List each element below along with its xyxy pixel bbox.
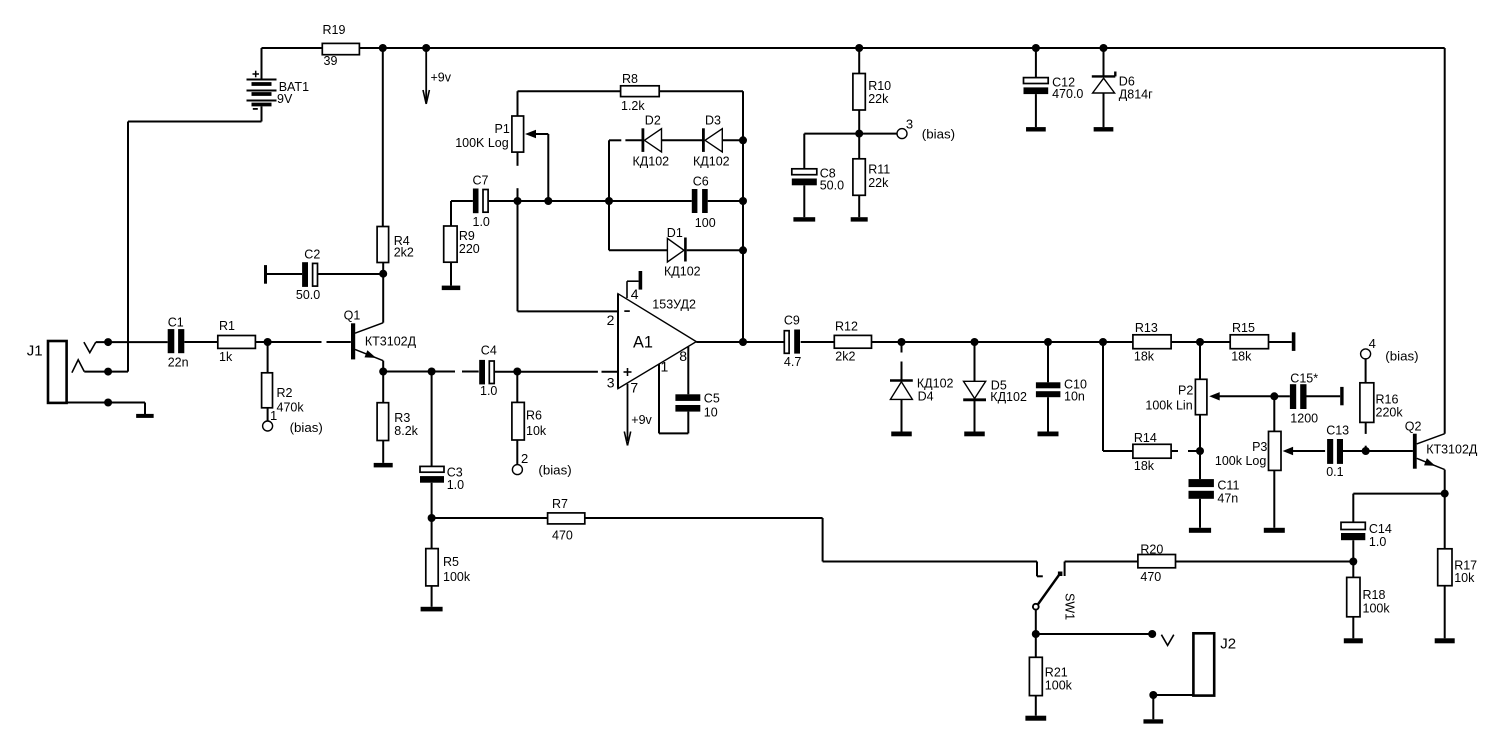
svg-text:D6: D6 (1119, 75, 1135, 89)
svg-text:R18: R18 (1363, 588, 1386, 602)
svg-text:(bias): (bias) (922, 127, 955, 142)
svg-text:10k: 10k (1454, 571, 1475, 585)
svg-text:22k: 22k (868, 176, 889, 190)
svg-text:153УД2: 153УД2 (652, 297, 696, 311)
svg-text:КД102: КД102 (917, 377, 954, 391)
svg-text:+9v: +9v (431, 71, 452, 85)
svg-text:R19: R19 (323, 23, 346, 37)
svg-text:100k Lin: 100k Lin (1145, 399, 1192, 413)
svg-text:J2: J2 (1220, 636, 1236, 653)
svg-text:R7: R7 (552, 497, 568, 511)
svg-text:10n: 10n (1064, 390, 1085, 404)
svg-text:R20: R20 (1140, 543, 1163, 557)
svg-text:C15*: C15* (1290, 371, 1318, 385)
svg-text:C9: C9 (784, 314, 800, 328)
svg-text:1.0: 1.0 (480, 384, 497, 398)
svg-text:R2: R2 (277, 386, 293, 400)
svg-text:Q1: Q1 (344, 309, 361, 323)
svg-text:КД102: КД102 (990, 390, 1027, 404)
svg-text:КТ3102Д: КТ3102Д (1426, 443, 1478, 457)
svg-text:КД102: КД102 (633, 154, 670, 168)
svg-text:C2: C2 (304, 248, 320, 262)
svg-text:100k: 100k (1045, 679, 1073, 693)
svg-text:10: 10 (704, 406, 718, 420)
svg-text:C14: C14 (1369, 522, 1392, 536)
svg-text:Д814г: Д814г (1119, 88, 1153, 102)
svg-text:220k: 220k (1376, 406, 1404, 420)
svg-text:0.1: 0.1 (1326, 465, 1343, 479)
svg-text:1200: 1200 (1290, 412, 1318, 426)
svg-text:C13: C13 (1326, 424, 1349, 438)
svg-text:D4: D4 (918, 390, 934, 404)
svg-text:1: 1 (661, 359, 669, 375)
svg-text:8: 8 (679, 348, 687, 364)
svg-text:КД102: КД102 (693, 154, 730, 168)
svg-text:3: 3 (906, 117, 913, 132)
svg-text:D3: D3 (705, 114, 721, 128)
svg-text:2k2: 2k2 (835, 350, 855, 364)
svg-text:R6: R6 (526, 409, 542, 423)
svg-text:R15: R15 (1232, 321, 1255, 335)
svg-text:4.7: 4.7 (784, 355, 801, 369)
svg-text:R5: R5 (443, 555, 459, 569)
svg-text:1.0: 1.0 (473, 215, 490, 229)
svg-text:7: 7 (630, 380, 638, 396)
svg-text:P3: P3 (1252, 440, 1267, 454)
svg-text:C5: C5 (704, 392, 720, 406)
svg-text:18k: 18k (1134, 350, 1155, 364)
svg-text:50.0: 50.0 (820, 179, 844, 193)
svg-text:P2: P2 (1178, 384, 1193, 398)
svg-text:470: 470 (552, 529, 573, 543)
svg-text:100K Log: 100K Log (455, 136, 509, 150)
svg-text:50.0: 50.0 (296, 288, 320, 302)
svg-text:C6: C6 (693, 175, 709, 189)
svg-text:P1: P1 (495, 122, 510, 136)
svg-text:D1: D1 (667, 226, 683, 240)
svg-text:A1: A1 (633, 334, 653, 352)
svg-text:R11: R11 (868, 163, 890, 177)
svg-text:2k2: 2k2 (394, 246, 414, 260)
svg-text:R3: R3 (394, 411, 410, 425)
svg-text:Q2: Q2 (1405, 420, 1422, 434)
svg-text:9V: 9V (277, 92, 293, 106)
svg-text:D2: D2 (645, 114, 661, 128)
svg-text:220: 220 (459, 242, 480, 256)
svg-text:R16: R16 (1376, 393, 1399, 407)
svg-text:10k: 10k (526, 424, 547, 438)
svg-text:100k: 100k (1363, 602, 1391, 616)
svg-text:(bias): (bias) (1385, 349, 1418, 364)
svg-text:SW1: SW1 (1063, 593, 1077, 620)
svg-text:R1: R1 (219, 319, 235, 333)
svg-text:3: 3 (607, 375, 615, 391)
svg-text:1.2k: 1.2k (621, 99, 645, 113)
svg-text:R10: R10 (868, 79, 891, 93)
svg-text:R9: R9 (459, 229, 475, 243)
svg-text:(bias): (bias) (290, 420, 323, 435)
svg-text:4: 4 (1369, 336, 1376, 351)
svg-text:R8: R8 (622, 72, 638, 86)
svg-text:R14: R14 (1134, 431, 1157, 445)
svg-text:C4: C4 (481, 344, 497, 358)
svg-text:22n: 22n (168, 356, 189, 370)
svg-text:470k: 470k (277, 401, 305, 415)
svg-text:1k: 1k (219, 350, 233, 364)
svg-text:470.0: 470.0 (1052, 87, 1083, 101)
svg-text:100: 100 (695, 216, 716, 230)
svg-text:2: 2 (607, 312, 615, 328)
svg-text:39: 39 (324, 54, 338, 68)
svg-text:47n: 47n (1217, 492, 1238, 506)
svg-text:1.0: 1.0 (447, 478, 464, 492)
svg-text:100k Log: 100k Log (1215, 454, 1266, 468)
svg-text:КД102: КД102 (664, 265, 701, 279)
svg-text:18k: 18k (1231, 350, 1252, 364)
svg-text:100k: 100k (443, 570, 471, 584)
svg-text:C7: C7 (473, 174, 489, 188)
svg-text:470: 470 (1140, 570, 1161, 584)
svg-text:1: 1 (270, 408, 277, 423)
svg-text:4: 4 (631, 286, 639, 302)
svg-text:J1: J1 (27, 343, 43, 360)
svg-text:R12: R12 (835, 320, 858, 334)
svg-text:18k: 18k (1134, 459, 1155, 473)
svg-text:1.0: 1.0 (1369, 535, 1386, 549)
svg-text:2: 2 (521, 451, 528, 466)
svg-text:(bias): (bias) (538, 463, 571, 478)
svg-text:C11: C11 (1217, 479, 1239, 493)
svg-text:C1: C1 (168, 316, 184, 330)
svg-text:+9v: +9v (631, 413, 652, 427)
svg-text:22k: 22k (868, 92, 889, 106)
svg-text:R21: R21 (1045, 666, 1068, 680)
svg-text:R13: R13 (1135, 321, 1158, 335)
svg-text:8.2k: 8.2k (394, 424, 418, 438)
svg-text:КТ3102Д: КТ3102Д (365, 335, 417, 349)
